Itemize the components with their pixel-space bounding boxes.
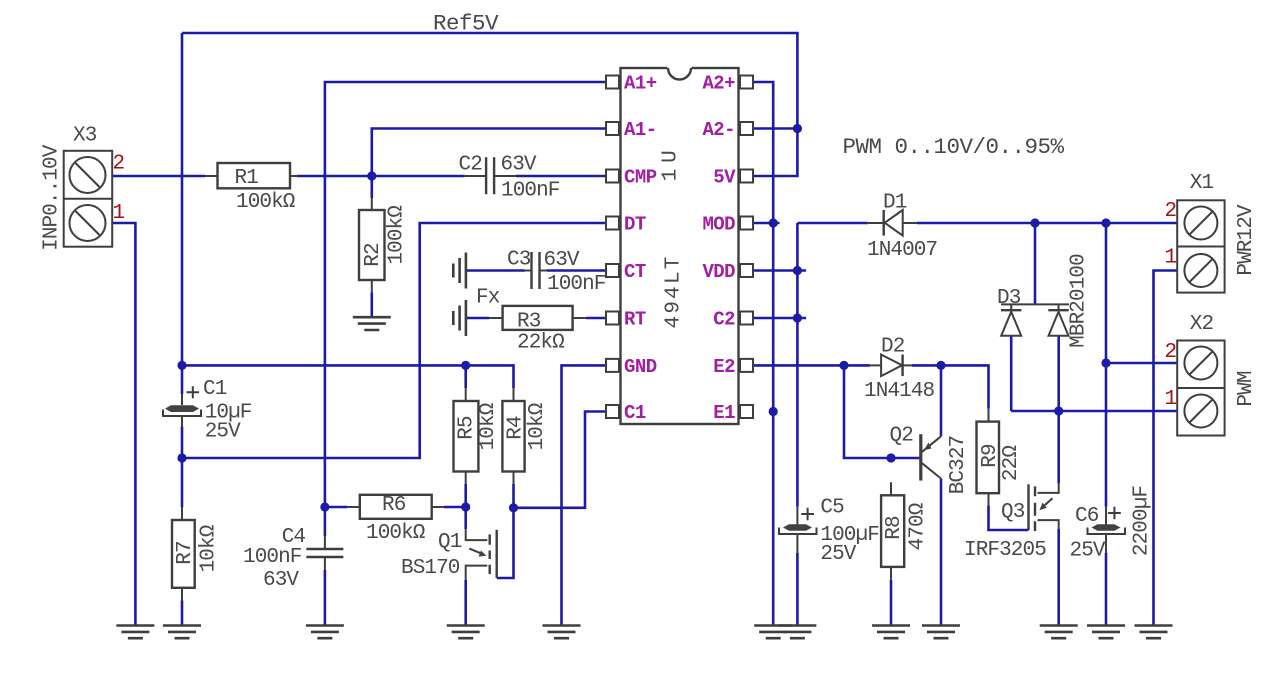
wire CT ground link	[466, 269, 525, 272]
svg-text:R9: R9	[979, 444, 1002, 468]
wire C3 to CT pin	[547, 269, 606, 272]
svg-text:1N4148: 1N4148	[864, 380, 935, 403]
svg-text:63V: 63V	[544, 249, 580, 272]
connector X2	[1177, 341, 1224, 436]
op-amp U1 body	[621, 68, 739, 424]
svg-text:100nF: 100nF	[501, 180, 560, 203]
wire R9 bottom to Q3 gate	[989, 506, 1029, 531]
resistor R7	[172, 507, 195, 601]
svg-text:D2: D2	[881, 336, 905, 359]
svg-text:R3: R3	[517, 311, 541, 334]
ground X1.1	[1135, 626, 1173, 639]
transistor Q1 BS170	[466, 529, 497, 580]
svg-text:10kΩ: 10kΩ	[477, 403, 500, 450]
ground C3 side	[453, 253, 466, 289]
svg-text:MBR20100: MBR20100	[1068, 254, 1091, 348]
svg-text:25V: 25V	[820, 543, 856, 566]
svg-text:5V: 5V	[713, 167, 736, 189]
svg-text:A2-: A2-	[702, 119, 735, 141]
connector X1	[1177, 200, 1224, 292]
svg-text:D1: D1	[883, 192, 907, 215]
svg-text:9: 9	[663, 302, 686, 314]
wire C6 bottom to ground	[1105, 553, 1108, 626]
svg-text:1: 1	[113, 202, 125, 225]
wire C2 pin stub	[753, 317, 806, 320]
svg-text:PWR12V: PWR12V	[1235, 204, 1258, 276]
node R1/A1-/C2/R2	[367, 171, 376, 180]
ground symbols	[116, 253, 1172, 639]
wire Ref5V mid line to R4	[182, 365, 514, 388]
wire Ref5V left vertical	[181, 33, 184, 394]
svg-text:25V: 25V	[1070, 540, 1106, 563]
pin boxes left	[606, 76, 619, 89]
resistor R2	[359, 198, 385, 292]
svg-text:1: 1	[1165, 388, 1177, 411]
svg-text:Fx: Fx	[476, 287, 500, 310]
node C1-/DT/R7	[177, 453, 186, 462]
ground Q3	[1040, 626, 1078, 639]
svg-text:BS170: BS170	[401, 557, 460, 580]
value TL494	[663, 257, 686, 328]
wire Q3 source to ground	[1057, 529, 1060, 626]
svg-text:4: 4	[663, 287, 686, 299]
capacitor C5 electrolytic	[779, 507, 817, 553]
svg-text:100kΩ: 100kΩ	[236, 191, 295, 214]
wire +12V rail vertical to C5	[796, 223, 799, 507]
wire RT ground link	[466, 317, 489, 320]
wire X2.2 net	[1106, 362, 1177, 365]
wire X1.1 to ground	[1154, 271, 1178, 626]
ground C6	[1087, 626, 1125, 639]
svg-text:C6: C6	[1075, 505, 1099, 528]
wire A2- stub	[753, 127, 797, 130]
svg-text:A2+: A2+	[702, 73, 735, 95]
node A2-/Ref5V	[793, 124, 802, 133]
svg-text:RT: RT	[624, 309, 646, 331]
resistor R8	[881, 482, 904, 580]
wire +12V rail left	[797, 222, 867, 225]
wire net Ref5V top rail	[182, 33, 797, 176]
svg-text:Q3: Q3	[1001, 501, 1025, 524]
wire GND pin net	[562, 365, 607, 625]
svg-text:C1: C1	[624, 402, 646, 424]
node E1/gnd rail	[769, 407, 778, 416]
svg-text:VDD: VDD	[702, 261, 735, 283]
svg-text:C2: C2	[459, 154, 483, 177]
ground Q2	[922, 626, 960, 639]
resistor R3	[489, 306, 586, 330]
svg-text:A1+: A1+	[624, 73, 657, 95]
svg-text:INP0..10V: INP0..10V	[40, 144, 63, 251]
resistor R9	[977, 409, 1000, 506]
wire R8 bottom to ground	[890, 580, 893, 626]
ground X3.1	[116, 626, 154, 639]
svg-text:X3: X3	[73, 125, 97, 148]
svg-text:T: T	[663, 257, 686, 269]
svg-text:100kΩ: 100kΩ	[366, 522, 425, 545]
ground E1	[754, 626, 792, 639]
ground Q1	[447, 626, 485, 639]
wire R4 bottom to Q1 gate	[497, 484, 514, 578]
connector X3	[64, 151, 112, 247]
svg-text:R6: R6	[382, 494, 406, 517]
node A1+/R6/C4	[320, 502, 329, 511]
wire D2 to R9	[912, 365, 989, 408]
wire C1- to R7 vertical	[181, 426, 184, 507]
wire D3 left anode	[1010, 336, 1013, 411]
svg-text:22Ω: 22Ω	[1000, 446, 1023, 481]
wire E2 branch to Q2 base	[844, 365, 920, 458]
wire VDD stub	[753, 269, 806, 272]
svg-text:R4: R4	[505, 416, 528, 440]
svg-text:Q1: Q1	[438, 531, 462, 554]
node E2/D2/Q2base	[839, 361, 848, 370]
capacitor C4	[306, 536, 343, 570]
capacitor C6 electrolytic	[1088, 507, 1126, 553]
wire E2 to D2	[753, 364, 870, 367]
capacitor C3	[525, 252, 548, 289]
wire X3.2 to R1	[112, 175, 205, 178]
wire C6 vertical	[1105, 223, 1108, 507]
wire R6 right link	[444, 506, 466, 509]
svg-text:CMP: CMP	[624, 167, 657, 189]
wire C4 top link	[324, 507, 327, 536]
svg-text:GND: GND	[624, 356, 657, 378]
wire A1+ net	[325, 82, 606, 507]
svg-text:10kΩ: 10kΩ	[526, 403, 549, 450]
node D1/D3	[1030, 218, 1039, 227]
wire Q2 emitter link	[940, 365, 943, 436]
svg-text:MOD: MOD	[702, 214, 735, 236]
node D3/X2.1/Q3drain	[1054, 406, 1063, 415]
ground R3 side	[453, 300, 466, 336]
resistor R5	[454, 388, 479, 484]
wire DT net	[182, 223, 606, 458]
ground R7	[163, 626, 201, 639]
svg-text:Q2: Q2	[890, 425, 914, 448]
wire D3 right anode to Q3 drain	[1057, 336, 1060, 483]
wire C1 pin net	[514, 412, 607, 508]
component symbols	[163, 157, 1125, 600]
node X1.2/C6	[1101, 218, 1110, 227]
wire R3 to RT pin	[586, 317, 606, 320]
wire C5 bottom to ground	[796, 553, 799, 626]
wire R1 to C2	[297, 175, 465, 178]
svg-text:63V: 63V	[501, 154, 537, 177]
svg-text:U: U	[660, 151, 683, 163]
wire R2 bottom to ground	[370, 292, 373, 317]
wire +12V rail right	[917, 222, 1178, 225]
wire X3.1 to ground	[112, 223, 135, 626]
svg-text:C2: C2	[713, 309, 735, 331]
label U1	[660, 151, 683, 182]
ground R8	[872, 626, 910, 639]
node Ref5V/C1	[177, 361, 186, 370]
wire R6 left link	[325, 506, 348, 509]
node Ref5V/R5	[461, 361, 470, 370]
svg-text:4: 4	[663, 316, 686, 328]
ground U1 GND	[543, 626, 581, 639]
resistor R4	[502, 388, 524, 484]
svg-text:R1: R1	[235, 167, 259, 190]
svg-text:C5: C5	[820, 496, 844, 519]
svg-text:25V: 25V	[205, 421, 241, 444]
svg-text:IRF3205: IRF3205	[964, 539, 1046, 562]
resistor R1	[205, 163, 297, 188]
svg-text:100kΩ: 100kΩ	[386, 206, 409, 265]
wire R5 top link	[464, 365, 467, 388]
diode D1	[868, 210, 917, 236]
transistor Q3 IRF3205	[1029, 483, 1059, 531]
ground C5	[778, 626, 816, 639]
node A2+/MOD	[769, 218, 778, 227]
wire Q1 source to ground	[464, 580, 467, 626]
svg-text:X1: X1	[1190, 172, 1214, 195]
svg-text:E2: E2	[713, 356, 735, 378]
svg-text:2: 2	[113, 153, 125, 176]
diode D3 dual MBR20100	[1001, 304, 1069, 335]
svg-text:1N4007: 1N4007	[867, 239, 937, 262]
svg-text:X2: X2	[1190, 313, 1214, 336]
svg-text:470Ω: 470Ω	[907, 503, 930, 550]
IC U1 TL494	[606, 66, 753, 424]
wire C2 to CMP pin	[516, 175, 606, 178]
svg-text:C1: C1	[203, 378, 227, 401]
capacitor C1 electrolytic	[163, 386, 201, 426]
svg-text:10kΩ: 10kΩ	[198, 525, 221, 572]
resistor R6	[348, 495, 444, 519]
svg-text:63V: 63V	[263, 569, 299, 592]
node C2pin/+12V	[793, 313, 802, 322]
node X2.2/C6	[1101, 358, 1110, 367]
pin boxes right	[740, 76, 753, 89]
svg-text:R8: R8	[883, 516, 906, 540]
ground R2	[353, 317, 391, 330]
ground C4	[306, 626, 344, 639]
wire A1- net	[372, 129, 606, 199]
svg-text:1: 1	[1165, 247, 1177, 270]
svg-text:R7: R7	[174, 541, 197, 564]
svg-text:R2: R2	[362, 243, 385, 267]
wire X2.1 net	[1011, 410, 1177, 413]
node R6/R5/Q1	[461, 502, 470, 511]
svg-text:2200µF: 2200µF	[1131, 486, 1154, 557]
node D2/R9/Q2emitter	[936, 361, 945, 370]
svg-text:100nF: 100nF	[547, 273, 606, 296]
wire R5 bottom to Q1 drain	[464, 484, 467, 529]
svg-text:22kΩ: 22kΩ	[517, 332, 564, 355]
svg-text:BC327: BC327	[947, 436, 970, 495]
diode D2	[870, 355, 912, 377]
svg-text:CT: CT	[624, 261, 646, 283]
wire MOD stub	[753, 222, 780, 225]
wire R7 bottom to ground	[181, 601, 184, 626]
node R4/C1pin/Q1gate	[509, 503, 518, 512]
svg-text:E1: E1	[713, 402, 735, 424]
capacitor C2	[465, 157, 516, 194]
svg-text:1: 1	[660, 169, 683, 181]
svg-text:Ref5V: Ref5V	[433, 11, 499, 37]
wire C4 bottom to ground	[324, 570, 327, 626]
svg-text:PWM: PWM	[1235, 371, 1258, 406]
svg-text:L: L	[663, 272, 686, 284]
node VDD/+12V	[793, 266, 802, 275]
svg-text:D3: D3	[997, 287, 1021, 310]
node Q2base/R8	[886, 453, 895, 462]
svg-text:PWM 0..10V/0..95%: PWM 0..10V/0..95%	[843, 134, 1065, 160]
wire D3 cathode link	[1034, 223, 1037, 304]
svg-text:A1-: A1-	[624, 119, 657, 141]
svg-text:DT: DT	[624, 214, 646, 236]
wire A2+ net vertical	[753, 82, 773, 626]
transistor Q2 BC327	[921, 434, 941, 480]
svg-text:2: 2	[1165, 341, 1177, 364]
svg-text:C3: C3	[507, 249, 531, 272]
wire Q2 collector to ground	[940, 479, 943, 626]
svg-text:100nF: 100nF	[243, 546, 302, 569]
svg-text:2: 2	[1165, 200, 1177, 223]
svg-text:R5: R5	[456, 416, 479, 440]
